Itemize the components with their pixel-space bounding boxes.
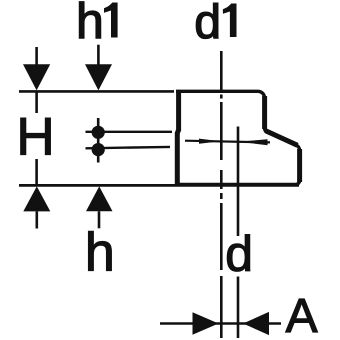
d dimension line upper segment [237, 127, 240, 237]
dimension A horizontal line [160, 322, 281, 325]
dimension A right arrow (left pointing) [243, 312, 269, 335]
reference dot upper [92, 126, 105, 139]
label d1 [196, 3, 236, 38]
reference line from lower dot [86, 147, 171, 148]
reference dot lower [92, 143, 105, 156]
inner bore arrow (right pointing, tip at axis) [199, 139, 221, 144]
reference line from upper dot [86, 131, 173, 133]
d dimension line lower segment [237, 277, 240, 339]
dimension h: lower leader line [98, 211, 101, 228]
dimension line top (upper extent line) [19, 90, 174, 93]
dimension h: lower arrow (up) [86, 186, 113, 211]
dimension H: upper arrow (down) [23, 64, 50, 90]
dimension line bottom (lower extent line) [19, 184, 299, 187]
fitting right lower edge (thick) [297, 149, 302, 182]
label d [227, 235, 249, 272]
fitting right upper edge (thick) [262, 96, 267, 129]
dimension h1/h: upper leader line [97, 45, 100, 65]
dimension H: lower leader line [35, 159, 38, 229]
label H [21, 118, 51, 154]
dimension A left arrow (right pointing) [193, 312, 219, 335]
fitting diagonal shoulder (thick) [265, 131, 297, 146]
dimension h1: upper arrow (down) [85, 64, 112, 90]
label h1 [79, 2, 117, 38]
fitting left edge (socket end, thick) [177, 90, 178, 186]
inner bore arrow (left pointing, tip at d-line) [239, 139, 268, 145]
dimension H: lower arrow (up) [23, 186, 50, 211]
fitting body outline [176, 91, 300, 184]
centre axis d1 (dash-dot) [220, 51, 223, 338]
label h [89, 231, 112, 270]
dimension H: upper leader line [35, 47, 38, 113]
label A [286, 299, 318, 332]
reference dots vertical line [97, 118, 100, 163]
inner bore pointer line [185, 141, 270, 143]
